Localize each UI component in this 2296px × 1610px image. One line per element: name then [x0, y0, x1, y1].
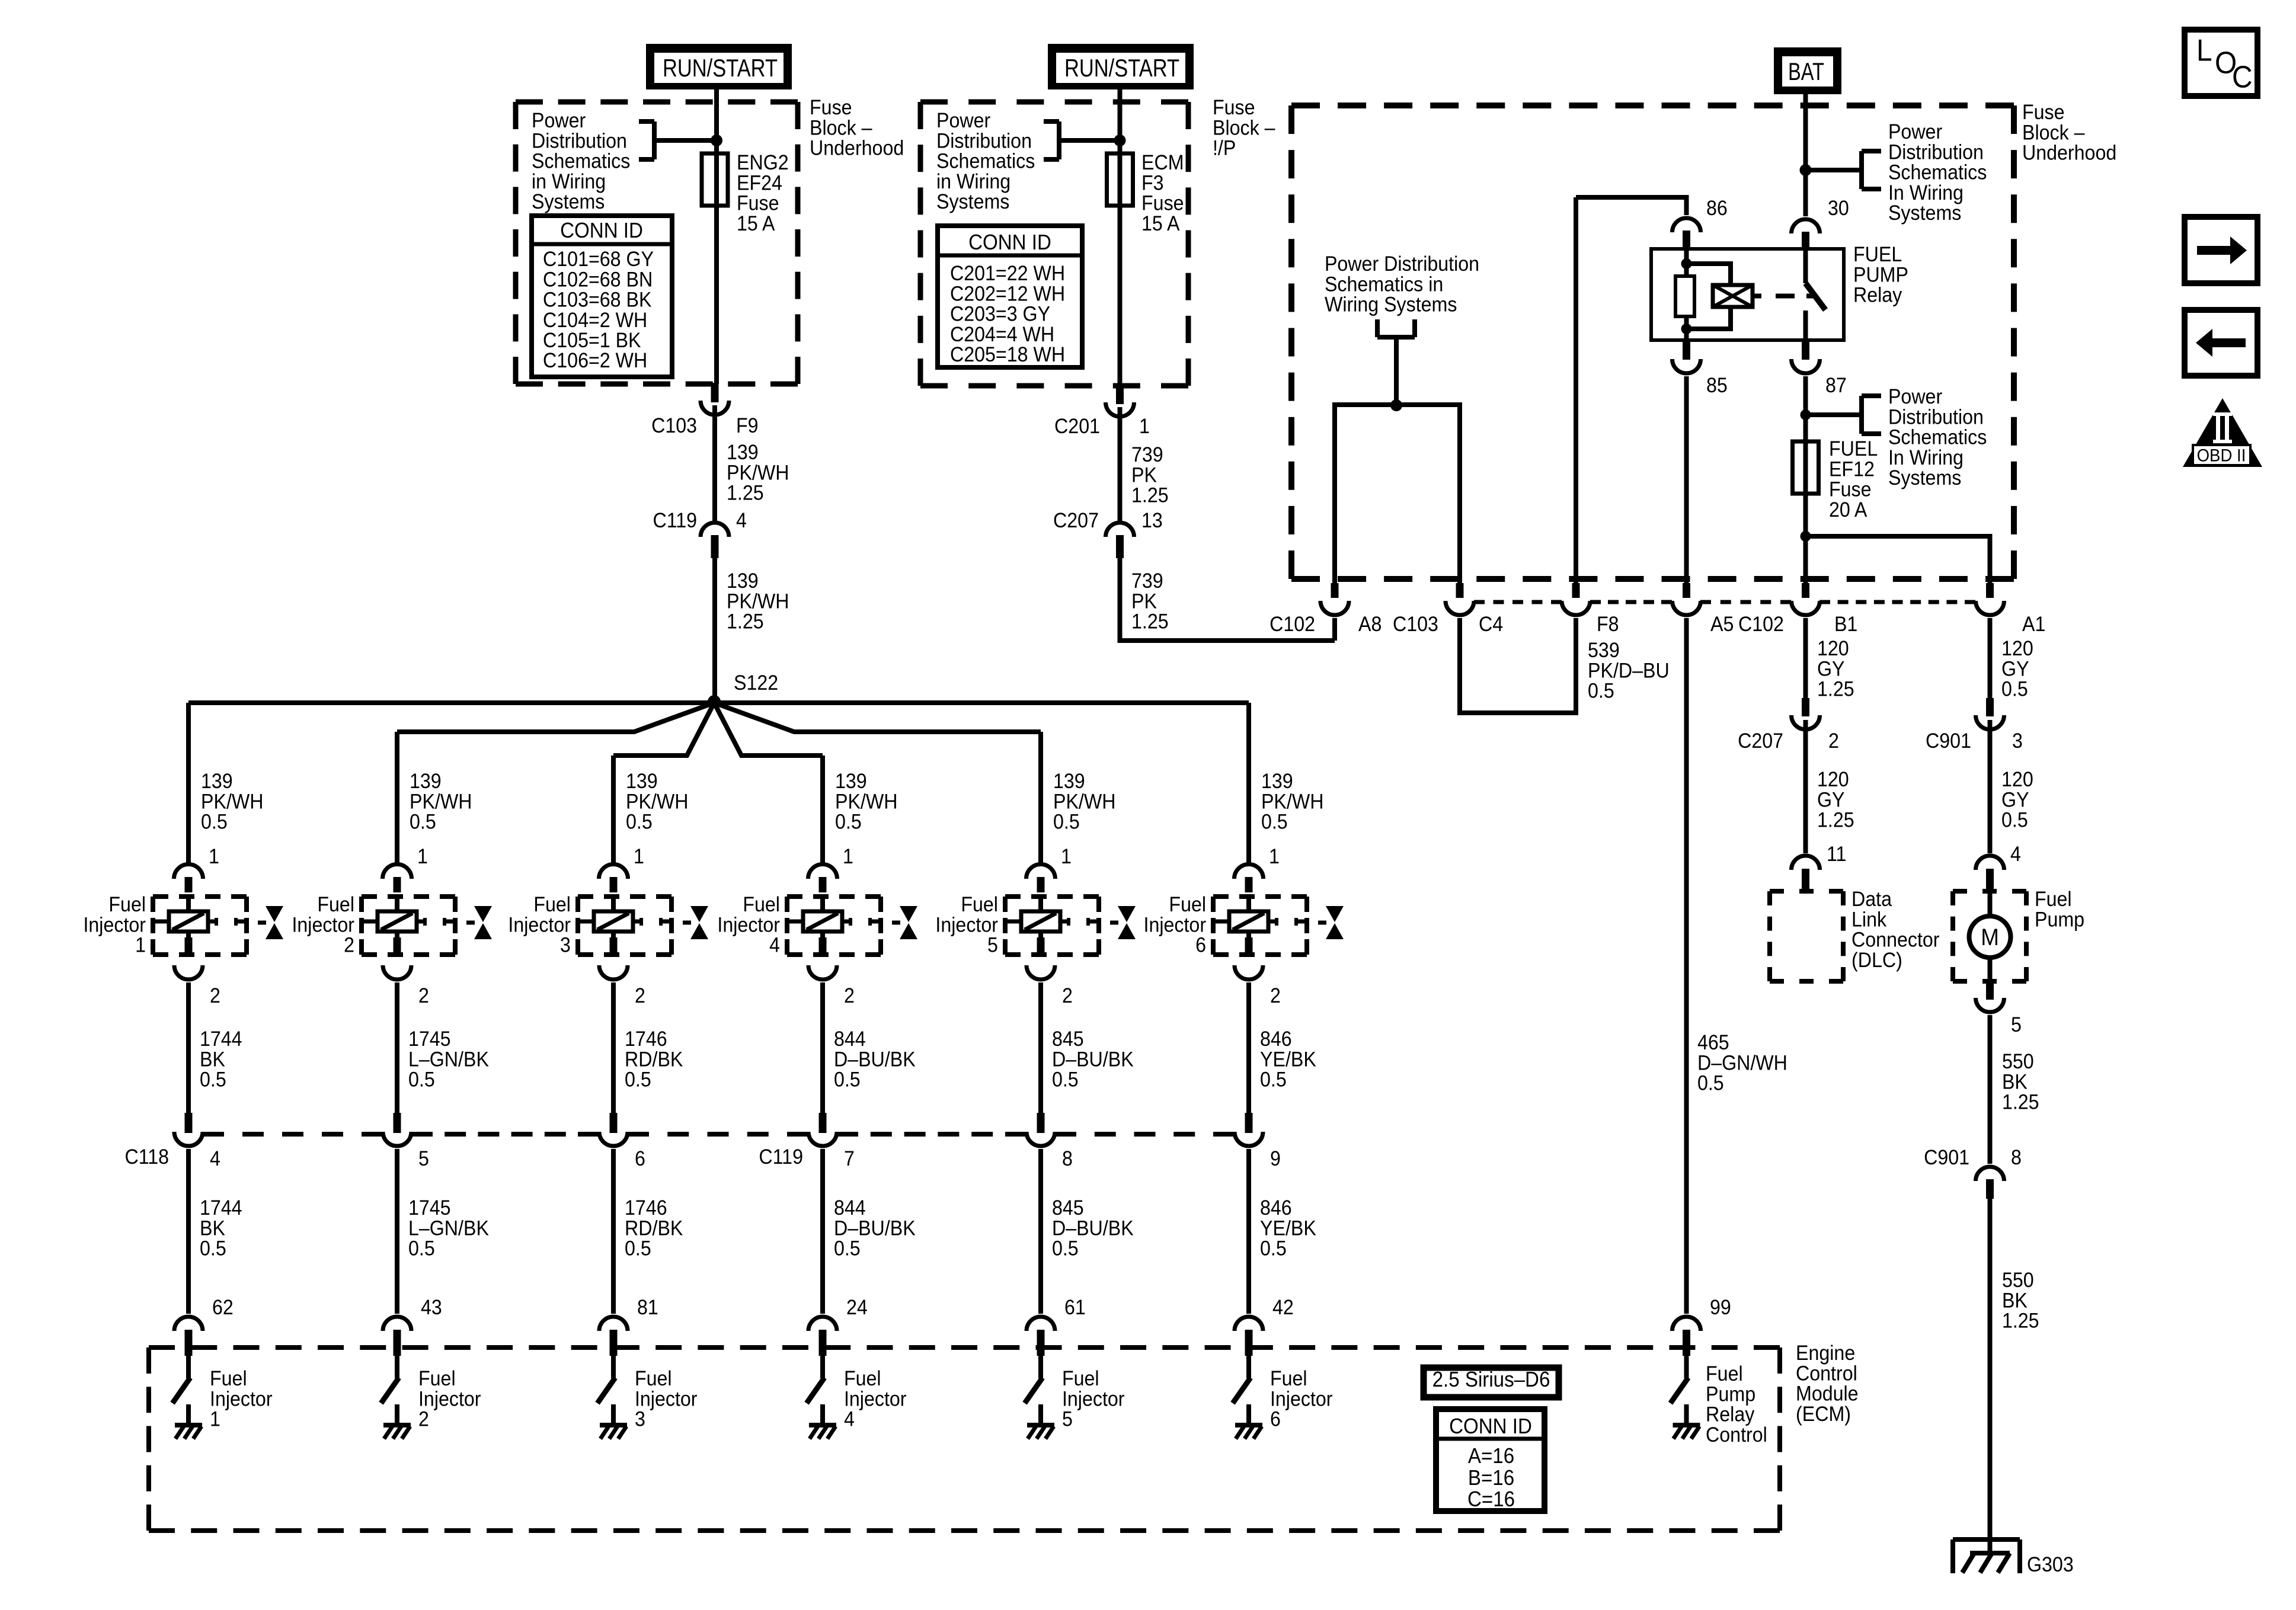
connector C901 pin 3 [1926, 698, 2023, 753]
svg-text:24: 24 [846, 1297, 868, 1320]
svg-text:Control: Control [1706, 1424, 1767, 1447]
fuel injector 1 solenoid [153, 897, 247, 955]
svg-text:3: 3 [560, 934, 571, 957]
svg-text:PK/D–BU: PK/D–BU [1588, 660, 1670, 683]
svg-text:D–BU/BK: D–BU/BK [834, 1048, 916, 1071]
svg-text:C901: C901 [1926, 730, 1971, 753]
svg-text:C104=2 WH: C104=2 WH [543, 309, 647, 332]
svg-text:RUN/START: RUN/START [1064, 54, 1179, 82]
svg-text:Fuel: Fuel [1169, 894, 1206, 917]
fuel pump relay box [1651, 249, 1844, 340]
svg-text:A=16: A=16 [1468, 1445, 1514, 1468]
svg-text:C=16: C=16 [1467, 1488, 1515, 1512]
icon OBD II triangle [2183, 398, 2262, 467]
fuel injector 2 name label [292, 894, 354, 957]
wire pin85 to A5 [1684, 376, 1689, 584]
svg-text:Underhood: Underhood [810, 137, 904, 160]
svg-text:EF12: EF12 [1829, 458, 1875, 481]
connector at fuel injector 4 pin 2 [808, 937, 855, 1008]
relay coil branch wire [1684, 249, 1689, 340]
connector C118/C119 pin 9 [1235, 1113, 1281, 1171]
svg-text:86: 86 [1706, 197, 1728, 220]
svg-text:0.5: 0.5 [200, 1237, 226, 1260]
svg-text:0.5: 0.5 [625, 1068, 651, 1092]
svg-text:Injector: Injector [418, 1388, 481, 1411]
svg-text:PK/WH: PK/WH [1261, 790, 1323, 814]
fuel injector 5 name label [935, 894, 998, 957]
svg-text:9: 9 [1270, 1148, 1281, 1171]
svg-text:F3: F3 [1141, 172, 1164, 195]
svg-text:Power: Power [936, 110, 990, 133]
fuel injector 2 spray valve [466, 906, 492, 939]
junction on A8/C4 feed [1390, 399, 1402, 411]
svg-text:Fuel: Fuel [743, 894, 780, 917]
power label RUN/START (ECM F3 circuit) [1048, 44, 1194, 89]
svg-text:C103=68 BK: C103=68 BK [543, 289, 652, 312]
svg-text:YE/BK: YE/BK [1260, 1217, 1316, 1240]
label 120 GY 0.5 (A1 upper) [2001, 638, 2033, 701]
svg-text:Fuel: Fuel [210, 1368, 247, 1391]
svg-text:CONN ID: CONN ID [560, 219, 643, 243]
svg-text:Schematics: Schematics [1888, 426, 1987, 449]
connector ECM pin 99 [1673, 1317, 1701, 1356]
svg-text:Fuel: Fuel [1706, 1363, 1743, 1386]
ground G303 [1953, 1539, 2074, 1577]
svg-text:C101=68 GY: C101=68 GY [543, 248, 654, 271]
svg-text:C901: C901 [1924, 1147, 1969, 1170]
svg-text:D–BU/BK: D–BU/BK [1052, 1048, 1134, 1071]
label 846 upper [1260, 1028, 1316, 1092]
svg-text:B1: B1 [1834, 613, 1857, 636]
svg-text:In Wiring: In Wiring [1888, 447, 1964, 470]
connector at fuel injector 3 pin 2 [599, 937, 645, 1008]
svg-text:139: 139 [835, 770, 867, 793]
svg-text:0.5: 0.5 [200, 1068, 226, 1092]
svg-text:C102: C102 [1738, 613, 1784, 636]
svg-text:7: 7 [844, 1148, 855, 1171]
label 87 [1825, 375, 1847, 398]
svg-text:1.25: 1.25 [727, 482, 764, 505]
svg-text:2: 2 [1828, 730, 1839, 753]
svg-text:PK/WH: PK/WH [410, 790, 472, 814]
svg-text:539: 539 [1588, 639, 1620, 662]
svg-text:Injector: Injector [1144, 914, 1207, 937]
svg-text:739: 739 [1131, 444, 1163, 467]
connector at ECM pin 62 [174, 1317, 203, 1356]
fuel injector 1 spray valve [258, 906, 283, 939]
wire 845 lower (injector 5) [1038, 1149, 1043, 1314]
wire to relay pin 86 [1576, 197, 1687, 215]
svg-text:139: 139 [201, 770, 233, 793]
junction relay coil top [1681, 258, 1692, 269]
wire 139 PK/WH 1.25 (lower) [712, 558, 717, 703]
svg-text:15 A: 15 A [737, 213, 775, 236]
svg-text:!/P: !/P [1213, 137, 1236, 160]
label 845 lower [1052, 1197, 1134, 1260]
label 1745 lower [408, 1197, 489, 1260]
svg-text:42: 42 [1272, 1297, 1294, 1320]
svg-text:BK: BK [2002, 1289, 2028, 1313]
fuel injector 6 solenoid [1213, 897, 1307, 955]
connector at fuel injector 2 pin 1 [383, 864, 412, 892]
svg-text:1746: 1746 [625, 1028, 667, 1051]
label ENG2 EF24 Fuse 15A [737, 152, 789, 235]
svg-text:Power: Power [532, 110, 586, 133]
svg-text:465: 465 [1697, 1032, 1729, 1055]
connector C901 pin 8 [1924, 1147, 2022, 1199]
svg-text:in Wiring: in Wiring [936, 171, 1011, 194]
svg-text:139: 139 [410, 770, 442, 793]
relay switch [1806, 249, 1826, 340]
connector C102 pin B1 [1738, 583, 1857, 636]
label FUEL EF12 Fuse 20A [1829, 438, 1878, 521]
svg-text:FUEL: FUEL [1829, 438, 1878, 461]
label C119 (row) [759, 1146, 803, 1169]
label 1745 upper [408, 1028, 489, 1092]
fuel pump motor [1969, 891, 2011, 981]
svg-text:Injector: Injector [844, 1388, 907, 1411]
svg-text:844: 844 [834, 1197, 866, 1220]
svg-text:Injector: Injector [717, 914, 780, 937]
fuel injector 3 name label [508, 894, 571, 957]
wire 550 BK 1.25 (upper) [1988, 1015, 1993, 1164]
svg-text:845: 845 [1052, 1028, 1084, 1051]
svg-text:15 A: 15 A [1141, 213, 1180, 236]
connector relay pin 87 [1792, 341, 1820, 373]
svg-text:43: 43 [421, 1297, 442, 1320]
wire branch to injector 4 [714, 703, 823, 864]
connector C201 pin 1 [1054, 385, 1150, 438]
label Engine Control Module (ECM) [1796, 1342, 1859, 1426]
svg-text:0.5: 0.5 [2001, 809, 2028, 832]
CONN ID table (C101-C106) [532, 216, 672, 377]
svg-text:Systems: Systems [1888, 202, 1961, 225]
svg-text:1746: 1746 [625, 1197, 667, 1220]
svg-text:C119: C119 [759, 1146, 803, 1169]
svg-text:C118: C118 [124, 1146, 169, 1169]
connector DLC pin 11 [1792, 856, 1820, 891]
callout bracket Power Distribution (BAT) [1806, 151, 1882, 189]
svg-text:1: 1 [135, 934, 146, 957]
wire 844 upper (injector 4) [820, 982, 825, 1113]
svg-text:C205=18 WH: C205=18 WH [950, 344, 1065, 367]
fuse ECM F3 15A [1107, 153, 1133, 206]
wire from RUN/START through ECM fuse to C201 [1118, 87, 1123, 386]
svg-text:C119: C119 [653, 510, 697, 533]
wire BAT feed [1803, 94, 1808, 216]
wire 120 GY 0.5 (A1 upper) [1988, 618, 1993, 699]
callout bracket Power Distribution Schematics (I/P) [1044, 121, 1120, 159]
svg-text:CONN ID: CONN ID [968, 231, 1051, 255]
label Fuel Pump [2035, 888, 2084, 932]
svg-text:2: 2 [635, 985, 645, 1008]
text Power Distribution Schematics in Wiring Systems (I/P) [936, 110, 1035, 213]
fuel injector 5 solenoid [1005, 897, 1099, 955]
svg-text:C202=12 WH: C202=12 WH [950, 283, 1065, 306]
svg-text:Fuse: Fuse [1829, 478, 1872, 501]
svg-text:C102=68 BN: C102=68 BN [543, 268, 653, 292]
svg-text:ENG2: ENG2 [737, 152, 789, 175]
svg-text:30: 30 [1828, 197, 1849, 220]
fuel injector 4 spray valve [892, 906, 917, 939]
svg-text:A1: A1 [2022, 613, 2045, 636]
wire 1745 lower (injector 2) [395, 1149, 399, 1314]
svg-text:1: 1 [1139, 415, 1150, 438]
svg-text:Power Distribution: Power Distribution [1325, 253, 1479, 276]
connector C118/C119 pin 5 [383, 1113, 429, 1171]
svg-text:Fuse: Fuse [1213, 97, 1255, 120]
svg-text:BK: BK [2002, 1071, 2028, 1094]
svg-text:Injector: Injector [1270, 1388, 1333, 1411]
connector pin F8 [1562, 583, 1619, 636]
svg-text:6: 6 [635, 1148, 645, 1171]
svg-text:0.5: 0.5 [1260, 1237, 1287, 1260]
fuse ENG2 EF24 15A [702, 153, 728, 206]
relay actuating dashed link [1776, 294, 1815, 299]
svg-text:20 A: 20 A [1829, 499, 1868, 522]
svg-text:Injector: Injector [1062, 1388, 1125, 1411]
svg-text:BK: BK [200, 1048, 225, 1071]
label 1744 upper [200, 1028, 242, 1092]
svg-text:G303: G303 [2027, 1554, 2074, 1577]
svg-text:Distribution: Distribution [532, 130, 627, 153]
svg-text:C204=4 WH: C204=4 WH [950, 324, 1054, 347]
wire branch to injector 3 [613, 703, 714, 864]
svg-text:85: 85 [1706, 375, 1728, 398]
svg-text:61: 61 [1064, 1297, 1086, 1320]
svg-text:PK/WH: PK/WH [835, 790, 897, 814]
ECM pin 43 label [421, 1297, 442, 1320]
svg-text:Injector: Injector [83, 914, 146, 937]
svg-text:Fuel: Fuel [1062, 1368, 1099, 1391]
svg-text:D–BU/BK: D–BU/BK [834, 1217, 916, 1240]
svg-text:RUN/START: RUN/START [663, 54, 778, 82]
injector 3 pin 1 label [634, 846, 644, 869]
fuel injector 1 name label [83, 894, 146, 957]
connector at fuel injector 5 pin 2 [1027, 937, 1073, 1008]
svg-text:87: 87 [1825, 375, 1847, 398]
wire 846 upper (injector 6) [1246, 982, 1251, 1113]
svg-text:Schematics: Schematics [532, 150, 630, 173]
svg-text:Block –: Block – [810, 117, 872, 140]
connector relay pin 30 [1792, 219, 1820, 248]
ground symbol (injector 1 driver) [175, 1425, 202, 1439]
svg-text:PUMP: PUMP [1853, 264, 1908, 287]
svg-text:M: M [1981, 924, 1999, 950]
svg-text:139: 139 [1053, 770, 1085, 793]
connector C119 pin 4 [653, 510, 746, 558]
svg-text:RD/BK: RD/BK [625, 1048, 683, 1071]
label 539 PK/D-BU 0.5 [1588, 639, 1670, 703]
svg-text:13: 13 [1141, 510, 1163, 533]
ECM pin 42 label [1272, 1297, 1294, 1320]
connector C207 pin 2 [1738, 698, 1839, 753]
svg-text:A8: A8 [1358, 613, 1382, 636]
ECM driver switch injector 6 [1233, 1350, 1251, 1425]
svg-text:Block –: Block – [2022, 121, 2085, 145]
label 1746 upper [625, 1028, 683, 1092]
svg-text:PK/WH: PK/WH [727, 462, 789, 485]
wire 550 BK 1.25 (lower) [1988, 1199, 1993, 1553]
fuel injector 3 solenoid [578, 897, 671, 955]
wire A8 down-left [1332, 618, 1337, 641]
svg-text:0.5: 0.5 [410, 811, 436, 834]
svg-text:0.5: 0.5 [408, 1237, 435, 1260]
wire 139 PK/WH 1.25 (upper) [712, 405, 717, 521]
label 846 lower [1260, 1197, 1316, 1260]
svg-text:1: 1 [209, 846, 219, 869]
svg-text:2: 2 [210, 985, 220, 1008]
svg-text:550: 550 [2002, 1051, 2034, 1074]
svg-text:139: 139 [1261, 770, 1293, 793]
connector pin A1 [1976, 583, 2046, 636]
power label RUN/START (ENG2 circuit) [646, 44, 792, 89]
svg-text:0.5: 0.5 [1052, 1237, 1079, 1260]
fuel injector 6 name label [1144, 894, 1207, 957]
svg-text:Fuel: Fuel [533, 894, 571, 917]
ECM pin 24 label [846, 1297, 868, 1320]
ECM label Fuel Injector 2 [418, 1368, 481, 1431]
svg-text:6: 6 [1195, 934, 1206, 957]
fuel injector 6 spray valve [1318, 906, 1344, 939]
svg-text:Engine: Engine [1796, 1342, 1855, 1365]
wire 1746 lower (injector 3) [611, 1149, 616, 1314]
svg-text:4: 4 [210, 1148, 220, 1171]
svg-text:EF24: EF24 [737, 172, 782, 195]
label 139 PK/WH 1.25 (upper) [727, 441, 789, 505]
connector at fuel injector 6 pin 2 [1235, 937, 1281, 1008]
junction EF12 top [1801, 409, 1811, 420]
dashed box Fuse Block - I/P [920, 102, 1188, 386]
svg-text:2.5 Sirius–D6: 2.5 Sirius–D6 [1432, 1368, 1550, 1392]
svg-text:Schematics: Schematics [936, 150, 1035, 173]
svg-text:C207: C207 [1053, 510, 1099, 533]
svg-text:Injector: Injector [210, 1388, 273, 1411]
callout bracket Power Distribution Schematics (ENG2) [639, 121, 717, 159]
label 550 BK 1.25 (lower) [2002, 1269, 2039, 1333]
svg-text:RD/BK: RD/BK [625, 1217, 683, 1240]
text Power Distribution Schematics In Wiring Systems (87) [1888, 386, 1987, 489]
connector C118/C119 pin 8 [1027, 1113, 1073, 1171]
label 550 BK 1.25 (upper) [2002, 1051, 2039, 1114]
fuel pump dashed box [1953, 891, 2026, 981]
svg-text:1: 1 [843, 846, 853, 869]
icon arrow left [2185, 310, 2257, 376]
svg-text:Pump: Pump [1706, 1383, 1755, 1406]
svg-text:C106=2 WH: C106=2 WH [543, 350, 647, 373]
wire splice trunk horizontal [188, 700, 1249, 705]
svg-text:1745: 1745 [408, 1028, 451, 1051]
svg-text:846: 846 [1260, 1028, 1292, 1051]
svg-text:62: 62 [212, 1297, 234, 1320]
connector fuel pump pin 5 [1976, 981, 2022, 1037]
ground symbol (relay control driver) [1673, 1425, 1700, 1439]
text Power Distribution Schematics in Wiring Systems (inside box) [1325, 253, 1479, 316]
svg-text:F8: F8 [1597, 613, 1619, 636]
svg-text:GY: GY [2001, 789, 2029, 812]
connector at fuel injector 1 pin 1 [174, 864, 203, 892]
svg-text:0.5: 0.5 [1053, 811, 1080, 834]
svg-text:C4: C4 [1479, 613, 1503, 636]
svg-text:3: 3 [635, 1408, 645, 1431]
svg-text:1744: 1744 [200, 1197, 242, 1220]
label 139 PK/WH 0.5 (injector 3) [626, 770, 688, 834]
ECM label Fuel Injector 3 [635, 1368, 698, 1431]
svg-text:0.5: 0.5 [834, 1237, 861, 1260]
svg-text:GY: GY [1817, 789, 1844, 812]
svg-text:Fuse: Fuse [810, 97, 852, 120]
dotted in-line connector row (C4-F8-A5-B1-A1) [1474, 600, 1975, 604]
fuse FUEL EF12 20A [1793, 441, 1819, 494]
injector 5 pin 1 label [1061, 846, 1072, 869]
dashed in-line connector row C118/C119 [203, 1132, 1235, 1137]
text Power Distribution Schematics in Wiring Systems (ENG2) [532, 110, 630, 213]
svg-text:1.25: 1.25 [1131, 484, 1169, 507]
svg-text:Pump: Pump [2035, 908, 2084, 932]
wire F8 riser [1574, 197, 1578, 584]
ground symbol (injector 5 driver) [1027, 1425, 1054, 1439]
svg-text:PK/WH: PK/WH [1053, 790, 1115, 814]
ECM label Fuel Injector 4 [844, 1368, 907, 1431]
splice S122 [708, 672, 778, 708]
wire 465 D-GN/WH (A5 to ECM 99) [1684, 618, 1689, 1314]
svg-text:Module: Module [1796, 1382, 1859, 1406]
wire 1746 upper (injector 3) [611, 982, 616, 1113]
connector at fuel injector 5 pin 1 [1027, 864, 1056, 892]
svg-text:1: 1 [210, 1408, 220, 1431]
connector relay pin 86 [1673, 218, 1701, 248]
ECM driver switch injector 2 [381, 1350, 399, 1425]
svg-text:D–BU/BK: D–BU/BK [1052, 1217, 1134, 1240]
svg-text:Link: Link [1851, 908, 1886, 932]
callout bracket Power Distribution (87) [1806, 396, 1882, 434]
svg-text:Fuel: Fuel [418, 1368, 456, 1391]
connector C118/C119 pin 4 [174, 1113, 220, 1171]
svg-text:845: 845 [1052, 1197, 1084, 1220]
ECM driver switch injector 1 [172, 1350, 190, 1425]
svg-text:2: 2 [344, 934, 354, 957]
label 139 PK/WH 0.5 (injector 5) [1053, 770, 1115, 834]
label pin 4 (fuel pump) [2010, 843, 2021, 866]
wire 120 GY 1.25 (B1 upper) [1803, 618, 1808, 699]
svg-text:PK/WH: PK/WH [727, 590, 789, 613]
injector 2 pin 1 label [417, 846, 428, 869]
label 139 PK/WH 0.5 (injector 2) [410, 770, 472, 834]
dashed box Fuse Block - Underhood (left) [516, 102, 798, 384]
svg-text:Fuse: Fuse [2022, 101, 2065, 124]
svg-text:OBD II: OBD II [2197, 446, 2246, 466]
svg-text:CONN ID: CONN ID [1449, 1415, 1532, 1439]
wire 539 PK/D-BU jumper F8 to C4 [1460, 618, 1576, 713]
svg-text:0.5: 0.5 [1588, 680, 1614, 703]
svg-text:C102: C102 [1269, 613, 1315, 636]
ground symbol (injector 2 driver) [383, 1425, 411, 1439]
label 844 upper [834, 1028, 916, 1092]
wire branch to injector 5 [714, 703, 1041, 864]
label 844 lower [834, 1197, 916, 1260]
connector pin A5 [1673, 583, 1734, 636]
svg-text:550: 550 [2002, 1269, 2034, 1292]
svg-text:5: 5 [418, 1148, 429, 1171]
connector at ECM pin 81 [599, 1317, 628, 1356]
label FUEL PUMP Relay [1853, 244, 1908, 307]
fuel injector 2 solenoid [362, 897, 455, 955]
svg-text:Distribution: Distribution [936, 130, 1032, 153]
svg-text:1745: 1745 [408, 1197, 451, 1220]
svg-text:Block –: Block – [1213, 117, 1275, 140]
label Fuse Block - Underhood (right box) [2022, 101, 2116, 165]
label 120 GY 0.5 (A1 lower) [2001, 769, 2033, 832]
